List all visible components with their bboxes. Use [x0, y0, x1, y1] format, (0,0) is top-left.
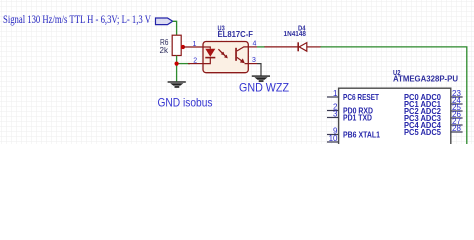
svg-text:GND isobus: GND isobus [158, 95, 213, 109]
svg-text:4: 4 [252, 41, 256, 48]
node junction pin2 [175, 62, 179, 66]
diode D4 [284, 24, 307, 52]
pin 26 PC3 ADC3 [404, 110, 463, 123]
pin 2 PD0 RXD [327, 103, 373, 116]
pin 4 of U3 [248, 41, 257, 48]
svg-text:PB6 XTAL1: PB6 XTAL1 [343, 130, 380, 140]
U3 LED anode wire [203, 47, 210, 49]
pin 24 PC1 ADC1 [404, 96, 463, 109]
svg-text:3: 3 [252, 57, 256, 64]
pin 3 of U3 [248, 57, 257, 64]
wire diode to right edge [321, 47, 467, 144]
svg-text:Signal 130 Hz/m/s TTL H - 6,3V: Signal 130 Hz/m/s TTL H - 6,3V; L- 1,3 V [3, 12, 151, 26]
diode anode pin [265, 46, 298, 48]
svg-text:PC6 RESET: PC6 RESET [343, 92, 380, 102]
U3 LED cathode wire [203, 58, 210, 64]
svg-text:EL817C-F: EL817C-F [218, 30, 254, 39]
pin 2 of U3 [188, 58, 203, 65]
svg-text:GND WZZ: GND WZZ [239, 80, 289, 94]
wire port to resistor [173, 21, 177, 35]
svg-text:ATMEGA328P-PU: ATMEGA328P-PU [393, 75, 458, 84]
wire pin4 to diode [257, 46, 265, 48]
pin 28 PC5 ADC5 [404, 124, 463, 137]
diode cathode pin [307, 46, 321, 48]
svg-text:10: 10 [329, 134, 338, 143]
node junction pin1 [181, 45, 185, 49]
pin 25 PC2 ADC2 [404, 103, 463, 116]
IC U2 body [339, 88, 451, 148]
pin 9 PB6 XTAL1 [327, 127, 380, 140]
pin 27 PC4 ADC4 [404, 117, 463, 130]
U3 LED triangle [205, 49, 215, 57]
ground GND isobus [168, 81, 186, 87]
U3 phototransistor [235, 47, 248, 64]
svg-text:2k: 2k [160, 46, 170, 55]
U3 LED cathode bar [205, 57, 215, 59]
svg-text:1: 1 [333, 89, 338, 98]
svg-text:1: 1 [193, 41, 197, 48]
wire pin2 stub [177, 63, 190, 65]
wire resistor to ground [176, 56, 178, 82]
svg-text:PC5 ADC5: PC5 ADC5 [404, 127, 441, 137]
port Signal [156, 18, 173, 25]
pin 1 PC6 RESET [327, 89, 380, 102]
wire pin3 to ground [257, 64, 261, 76]
svg-text:28: 28 [452, 124, 461, 133]
svg-text:PD1 TXD: PD1 TXD [343, 113, 372, 123]
pin 1 of U3 [183, 41, 203, 48]
svg-text:2: 2 [193, 58, 197, 65]
pin 23 PC0 ADC0 [404, 89, 463, 102]
U3 light arrow 2 [222, 52, 228, 58]
U3 light arrow 1 [218, 49, 224, 55]
pin 10 [327, 134, 339, 143]
pin 3 PD1 TXD [327, 110, 372, 123]
optocoupler U3 [203, 42, 248, 73]
resistor R6 [160, 35, 182, 55]
ground GND WZZ [252, 75, 270, 81]
svg-text:1N4148: 1N4148 [284, 29, 307, 38]
svg-text:3: 3 [333, 110, 338, 119]
